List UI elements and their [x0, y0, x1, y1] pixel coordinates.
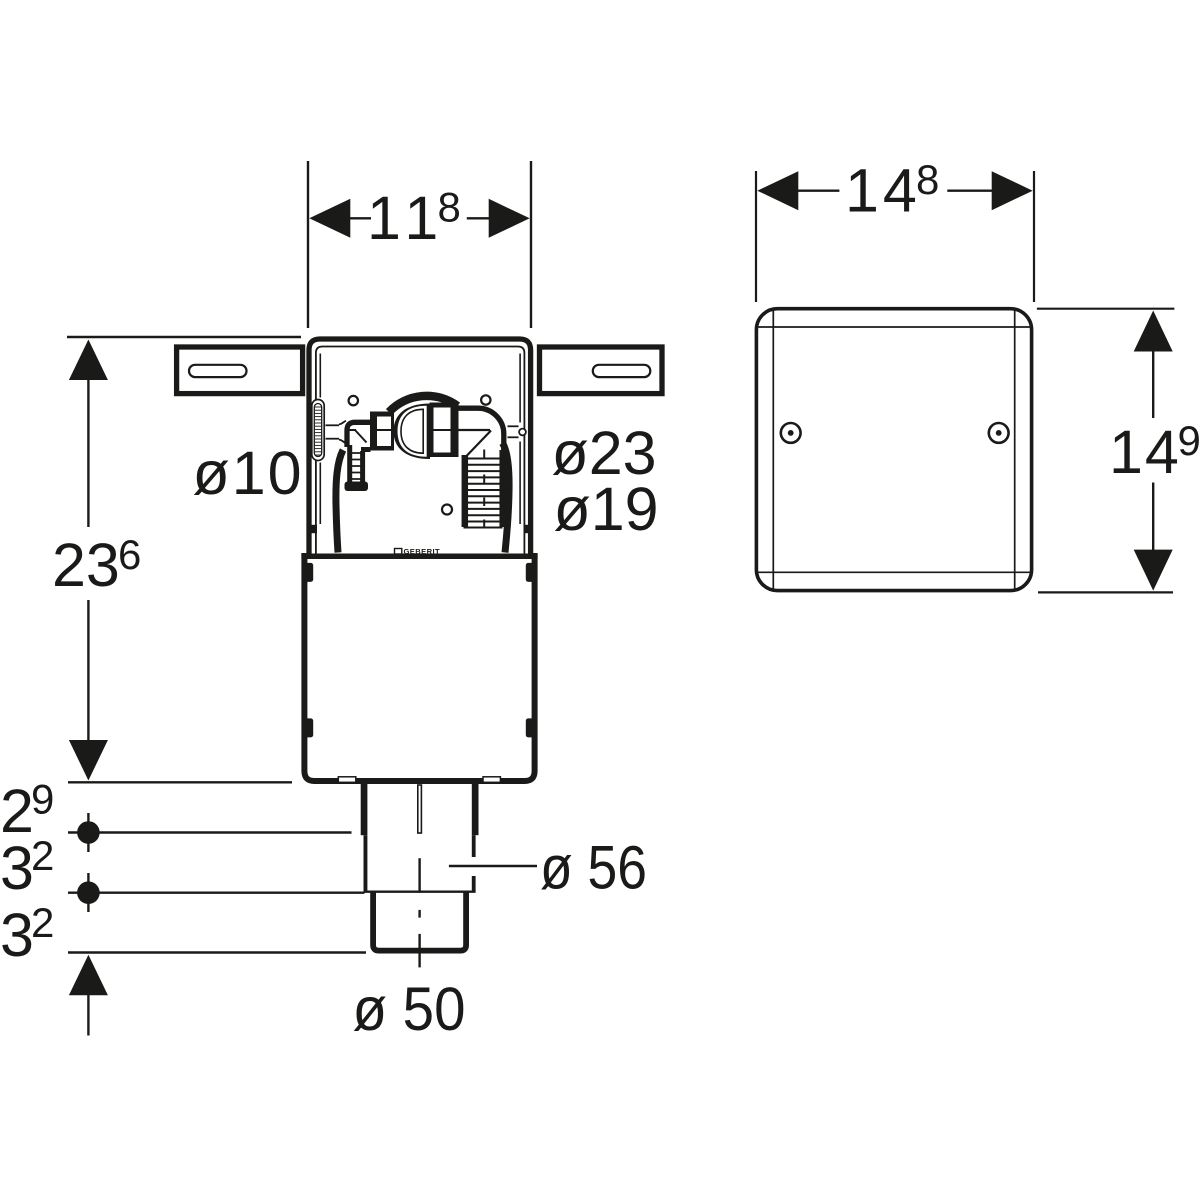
svg-text:ø 50: ø 50	[353, 975, 466, 1043]
svg-text:ø19: ø19	[554, 475, 659, 543]
svg-text:9: 9	[1178, 417, 1200, 464]
svg-text:11: 11	[367, 184, 446, 252]
svg-text:8: 8	[916, 156, 939, 203]
svg-text:9: 9	[31, 776, 54, 823]
svg-text:2: 2	[31, 832, 54, 879]
svg-text:6: 6	[118, 531, 141, 578]
svg-text:ø10: ø10	[193, 439, 304, 507]
svg-text:3: 3	[0, 834, 34, 902]
svg-text:14: 14	[845, 157, 921, 225]
svg-text:GEBERIT: GEBERIT	[404, 547, 441, 556]
svg-text:14: 14	[1109, 418, 1181, 486]
svg-text:2: 2	[31, 899, 54, 946]
svg-text:23: 23	[52, 531, 120, 599]
svg-text:3: 3	[0, 901, 34, 969]
svg-text:8: 8	[438, 184, 461, 231]
svg-text:ø 56: ø 56	[540, 834, 647, 902]
